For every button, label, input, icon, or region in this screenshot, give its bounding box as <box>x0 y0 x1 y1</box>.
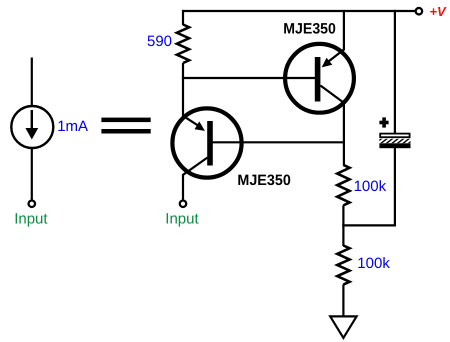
resistor R1 590 zigzag <box>177 25 189 64</box>
wire capacitor bottom to junction <box>394 148 396 227</box>
capacitor C1 bottom plate <box>379 143 410 148</box>
transistor Q2 emitter diagonal with arrow <box>183 116 199 126</box>
wire Q2 collector down to input terminal <box>182 175 184 200</box>
transistor Q1 base bar <box>315 57 321 102</box>
wire junction horizontal to capacitor branch <box>342 224 396 226</box>
transistor Q2 circle (lower MJE350, mirrored) <box>172 108 241 177</box>
wire bottom of current source <box>31 148 33 200</box>
wire Q1 collector down to R2 <box>343 103 345 166</box>
wire R1 bottom to base node <box>182 63 184 79</box>
wire Q2 emitter from base node down <box>182 78 184 117</box>
svg-text:Input: Input <box>165 210 199 227</box>
capacitor C1 top plate <box>380 134 409 138</box>
resistor R3 100k zigzag <box>337 246 349 285</box>
svg-text:590: 590 <box>147 33 172 50</box>
wire R2 bottom to junction <box>342 205 344 226</box>
wire Q1 emitter to rail <box>343 10 345 51</box>
capacitor C1 plus sign <box>382 117 386 127</box>
svg-text:1mA: 1mA <box>57 118 88 135</box>
equivalence sign <box>101 118 150 123</box>
transistor Q1 collector diagonal <box>320 86 344 104</box>
transistor Q1 circle (upper MJE350) <box>285 44 354 113</box>
wire Q2 base to Q1 collector <box>210 141 345 143</box>
wire top of current source <box>31 58 33 107</box>
capacitor C1 hatched band <box>379 139 410 143</box>
wire R2/R3 junction down <box>342 225 344 246</box>
svg-text:+V: +V <box>430 4 448 19</box>
node +V terminal <box>416 8 423 15</box>
wire base of Q1 from node <box>182 77 317 79</box>
transistor Q2 base bar <box>207 121 213 166</box>
wire from rail into R1 <box>182 10 184 25</box>
transistor Q1 emitter diagonal with arrow <box>329 50 344 62</box>
current source I1 arrow <box>31 110 33 129</box>
svg-text:100k: 100k <box>357 255 390 272</box>
node Input terminal 1 <box>29 200 36 207</box>
wire top rail <box>183 10 416 12</box>
svg-text:MJE350: MJE350 <box>283 21 336 38</box>
svg-text:MJE350: MJE350 <box>237 172 290 189</box>
wire R3 bottom to ground <box>342 284 344 316</box>
current source I1 circle <box>11 106 53 148</box>
wire capacitor top from rail <box>394 10 396 134</box>
node Input terminal 2 <box>180 200 187 207</box>
resistor R2 100k zigzag <box>337 165 349 205</box>
ground symbol <box>330 316 356 338</box>
transistor Q2 collector diagonal <box>183 158 208 176</box>
svg-text:100k: 100k <box>354 178 387 195</box>
svg-text:Input: Input <box>14 210 48 227</box>
